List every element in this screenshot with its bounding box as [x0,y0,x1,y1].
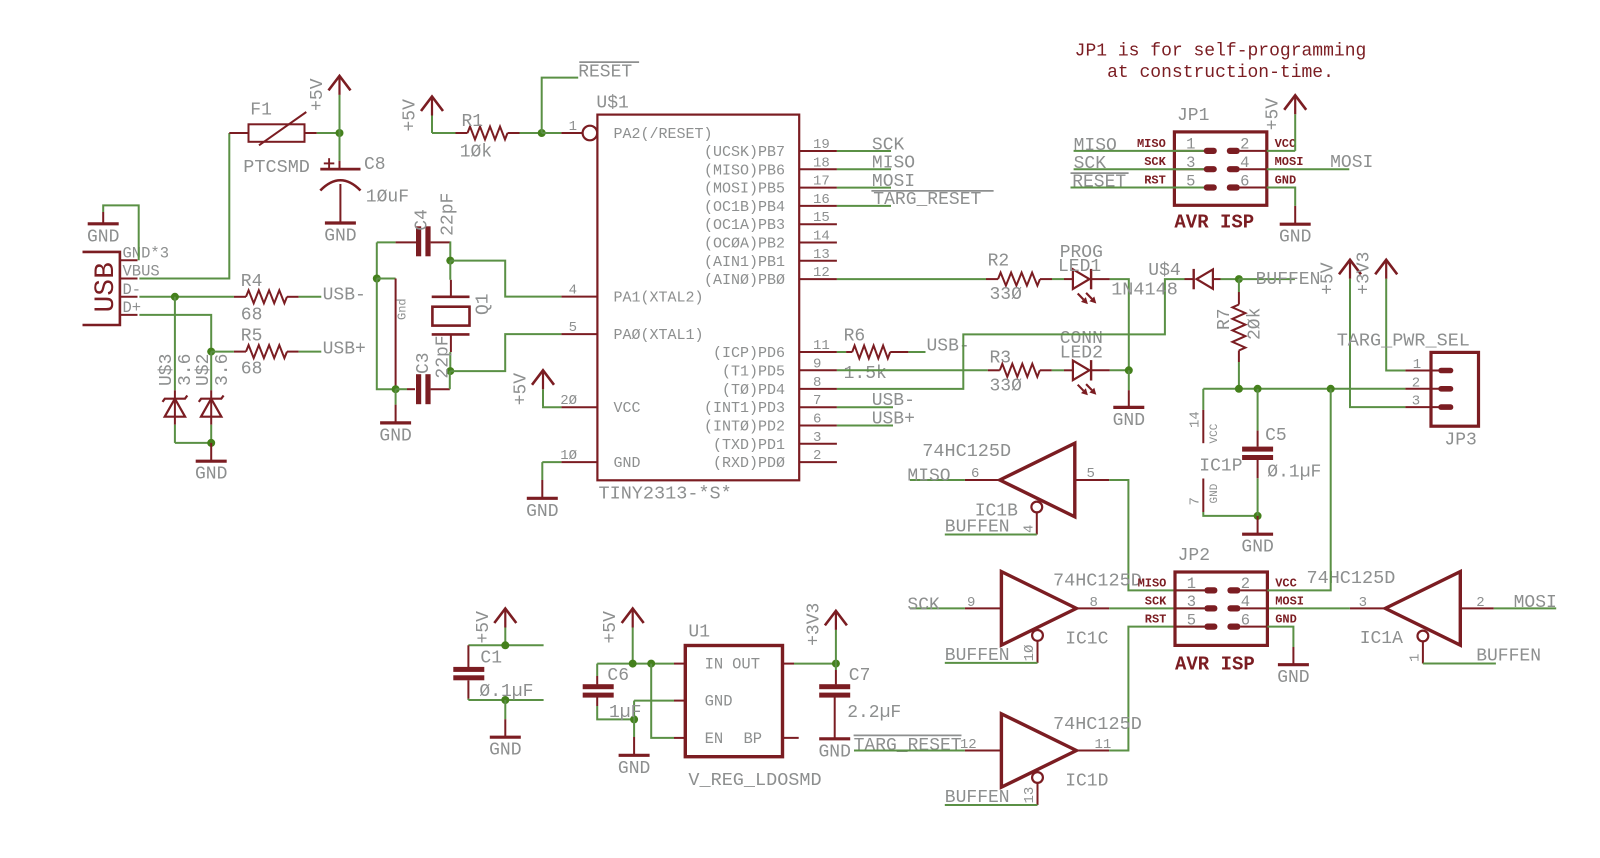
svg-text:BP: BP [744,730,763,748]
svg-text:22pF: 22pF [439,193,459,236]
svg-text:USB-: USB- [872,391,915,411]
svg-text:TARG_RESET: TARG_RESET [873,190,981,210]
svg-text:at construction-time.: at construction-time. [1107,63,1334,83]
svg-text:(OC1A)PB3: (OC1A)PB3 [704,217,785,234]
svg-text:OUT: OUT [732,656,760,674]
svg-text:PA2(/RESET): PA2(/RESET) [614,126,713,143]
svg-text:R7: R7 [1215,308,1235,330]
svg-text:8: 8 [1090,595,1098,611]
svg-text:MOSI: MOSI [1275,155,1304,169]
svg-text:TARG_PWR_SEL: TARG_PWR_SEL [1337,331,1470,352]
svg-text:1µF: 1µF [609,703,641,723]
svg-text:PA1(XTAL2): PA1(XTAL2) [614,290,704,307]
svg-text:GND: GND [1275,613,1297,627]
svg-text:RESET: RESET [578,63,632,83]
svg-text:(AIN1)PB1: (AIN1)PB1 [704,254,785,271]
svg-text:SCK: SCK [907,595,940,615]
svg-text:4: 4 [1021,525,1037,533]
svg-text:MISO: MISO [1137,137,1166,151]
svg-text:5: 5 [569,320,577,336]
svg-text:V_REG_LDOSMD: V_REG_LDOSMD [688,770,821,791]
svg-text:SCK: SCK [1074,154,1107,174]
svg-text:GND: GND [379,426,411,446]
svg-text:MISO: MISO [1138,576,1167,590]
svg-text:Gnd: Gnd [396,298,410,320]
svg-text:(OC1B)PB4: (OC1B)PB4 [704,199,785,216]
svg-text:C5: C5 [1265,426,1287,446]
svg-text:+5V: +5V [474,611,494,644]
svg-text:4: 4 [1240,154,1249,172]
svg-text:2: 2 [813,448,821,464]
svg-text:BUFFEN: BUFFEN [1256,270,1321,290]
svg-text:9: 9 [813,356,821,372]
svg-text:(MISO)PB6: (MISO)PB6 [704,162,785,179]
svg-text:IC1B: IC1B [975,502,1018,522]
svg-text:MISO: MISO [1074,136,1117,156]
svg-text:1: 1 [1413,357,1421,373]
svg-text:(INT1)PD3: (INT1)PD3 [704,400,785,417]
svg-text:IC1P: IC1P [1199,457,1242,477]
svg-text:USB+: USB+ [323,340,366,360]
svg-text:14: 14 [813,229,830,245]
svg-text:R3: R3 [990,349,1012,369]
svg-text:Ø.1µF: Ø.1µF [1267,463,1321,483]
svg-text:33Ø: 33Ø [990,377,1023,397]
svg-text:68: 68 [241,305,263,325]
svg-text:17: 17 [813,174,830,190]
svg-text:SCK: SCK [1145,594,1167,608]
svg-text:18: 18 [813,155,830,171]
svg-text:R4: R4 [241,272,263,292]
svg-text:GND: GND [1209,483,1221,503]
svg-text:8: 8 [813,375,821,391]
svg-text:1N4148: 1N4148 [1111,280,1178,301]
svg-text:4: 4 [569,283,577,299]
svg-text:AVR ISP: AVR ISP [1175,654,1255,676]
svg-text:GND: GND [1277,668,1309,688]
svg-text:74HC125D: 74HC125D [1053,571,1142,592]
svg-text:+5V: +5V [512,373,532,406]
svg-text:2: 2 [1412,375,1420,391]
svg-text:1Ø: 1Ø [1022,645,1038,662]
svg-text:+5V: +5V [1319,262,1339,295]
svg-text:6: 6 [971,466,979,482]
svg-text:JP1: JP1 [1177,106,1209,126]
svg-text:+5V: +5V [401,99,421,132]
svg-text:1: 1 [1187,575,1196,593]
svg-text:13: 13 [1022,787,1038,804]
svg-text:2: 2 [1240,136,1249,154]
svg-text:74HC125D: 74HC125D [922,441,1011,462]
svg-text:VCC: VCC [1209,423,1221,443]
svg-text:(TXD)PD1: (TXD)PD1 [713,437,785,454]
svg-text:LED1: LED1 [1058,257,1101,277]
svg-text:3.6: 3.6 [176,354,196,386]
svg-text:GND: GND [1241,538,1273,558]
svg-text:U$4: U$4 [1148,261,1180,281]
svg-text:C7: C7 [849,666,871,686]
svg-text:33Ø: 33Ø [990,285,1023,305]
svg-text:USB: USB [91,262,122,312]
svg-text:2.2µF: 2.2µF [847,703,901,723]
svg-text:1ØuF: 1ØuF [366,188,409,208]
svg-text:R5: R5 [241,327,263,347]
svg-text:JP3: JP3 [1444,431,1476,451]
svg-text:1: 1 [1407,654,1423,662]
svg-text:11: 11 [813,338,830,354]
svg-text:EN: EN [705,730,724,748]
svg-text:+3V3: +3V3 [804,603,824,646]
svg-text:(UCSK)PB7: (UCSK)PB7 [704,144,785,161]
svg-text:7: 7 [813,393,821,409]
svg-text:R6: R6 [844,327,866,347]
svg-text:(OCØA)PB2: (OCØA)PB2 [704,236,785,253]
svg-text:PTCSMD: PTCSMD [243,157,310,178]
svg-text:GND: GND [1279,228,1311,248]
svg-text:GND: GND [324,227,356,247]
svg-text:GND: GND [1275,174,1297,188]
svg-text:12: 12 [813,265,830,281]
svg-text:22pF: 22pF [434,335,454,378]
svg-text:USB+: USB+ [872,410,915,430]
svg-text:2: 2 [1476,595,1484,611]
svg-text:Q1: Q1 [474,293,494,315]
svg-text:RESET: RESET [1072,173,1126,193]
svg-text:C1: C1 [480,648,502,668]
svg-text:MOSI: MOSI [1514,593,1557,613]
svg-text:68: 68 [241,359,263,379]
svg-text:6: 6 [1241,611,1250,629]
svg-text:R2: R2 [988,252,1010,272]
svg-text:(AINØ)PBØ: (AINØ)PBØ [704,272,785,289]
svg-text:VCC: VCC [614,400,641,417]
svg-text:MOSI: MOSI [1330,153,1373,173]
svg-text:11: 11 [1095,737,1112,753]
svg-text:13: 13 [813,247,830,263]
svg-text:GND: GND [618,759,650,779]
svg-text:GND: GND [489,741,521,761]
svg-text:U$1: U$1 [596,94,628,114]
svg-text:C4: C4 [412,209,432,231]
svg-text:IC1D: IC1D [1065,772,1108,792]
svg-text:U$3: U$3 [157,354,177,386]
svg-text:GND: GND [195,465,227,485]
svg-text:5: 5 [1187,611,1196,629]
svg-text:BUFFEN: BUFFEN [945,646,1010,666]
svg-text:AVR ISP: AVR ISP [1174,211,1254,233]
svg-text:IC1C: IC1C [1065,630,1108,650]
svg-text:(RXD)PDØ: (RXD)PDØ [713,455,785,472]
svg-text:U1: U1 [688,623,710,643]
svg-text:F1: F1 [250,101,272,121]
svg-text:1: 1 [569,119,577,135]
svg-text:RST: RST [1145,613,1167,627]
svg-text:3: 3 [1412,394,1420,410]
svg-text:1.5k: 1.5k [844,364,887,384]
svg-text:BUFFEN: BUFFEN [1476,647,1541,667]
svg-text:(TØ)PD4: (TØ)PD4 [722,382,785,399]
svg-text:MOSI: MOSI [1275,594,1304,608]
svg-text:74HC125D: 74HC125D [1307,568,1396,589]
svg-text:C6: C6 [607,666,629,686]
svg-text:6: 6 [1240,172,1249,190]
svg-text:GND: GND [1113,411,1145,431]
svg-text:GND: GND [526,502,558,522]
svg-text:74HC125D: 74HC125D [1053,714,1142,735]
svg-text:BUFFEN: BUFFEN [945,788,1010,808]
svg-text:MISO: MISO [907,467,950,487]
svg-text:SCK: SCK [1144,155,1166,169]
svg-text:(ICP)PD6: (ICP)PD6 [713,345,785,362]
svg-text:TARG_RESET: TARG_RESET [854,736,962,756]
svg-text:19: 19 [813,137,830,153]
svg-text:PAØ(XTAL1): PAØ(XTAL1) [614,327,704,344]
svg-text:3: 3 [1359,595,1367,611]
svg-text:2Ø: 2Ø [560,393,577,409]
svg-text:MISO: MISO [872,154,915,174]
svg-text:JP1 is for self-programming: JP1 is for self-programming [1075,42,1367,62]
svg-text:USB-: USB- [323,286,366,306]
svg-text:+5V: +5V [1264,98,1284,131]
svg-text:VCC: VCC [1275,576,1297,590]
svg-text:3.6: 3.6 [213,354,233,386]
svg-text:+5V: +5V [308,78,328,111]
svg-text:SCK: SCK [872,135,905,155]
svg-text:+5V: +5V [601,611,621,644]
svg-text:LED2: LED2 [1060,344,1103,364]
svg-text:C8: C8 [364,155,386,175]
svg-text:3: 3 [813,430,821,446]
svg-text:15: 15 [813,210,830,226]
svg-text:VCC: VCC [1275,137,1297,151]
svg-text:GND: GND [705,693,733,711]
svg-text:(T1)PD5: (T1)PD5 [722,363,785,380]
svg-text:Ø.1µF: Ø.1µF [479,682,533,702]
svg-text:C3: C3 [414,352,434,374]
svg-text:1Øk: 1Øk [460,143,492,163]
svg-text:9: 9 [967,595,975,611]
svg-text:16: 16 [813,192,830,208]
svg-text:(MOSI)PB5: (MOSI)PB5 [704,181,785,198]
svg-text:TINY2313-*S*: TINY2313-*S* [599,484,732,505]
svg-text:GND: GND [614,455,641,472]
svg-text:U$2: U$2 [194,354,214,386]
svg-text:6: 6 [813,412,821,428]
svg-text:2Øk: 2Øk [1246,308,1266,340]
svg-text:IN: IN [705,656,724,674]
svg-text:RST: RST [1144,174,1166,188]
svg-text:1Ø: 1Ø [560,448,577,464]
svg-text:IC1A: IC1A [1360,629,1403,649]
svg-text:MOSI: MOSI [872,172,915,192]
svg-text:R1: R1 [462,112,484,132]
svg-text:(INTØ)PD2: (INTØ)PD2 [704,419,785,436]
svg-text:+3V3: +3V3 [1355,252,1375,295]
svg-text:14: 14 [1188,411,1204,428]
svg-text:GND: GND [818,742,850,762]
svg-text:GND: GND [87,227,119,247]
svg-text:2: 2 [1241,575,1250,593]
svg-text:JP2: JP2 [1178,546,1210,566]
svg-text:3: 3 [1187,593,1196,611]
svg-text:7: 7 [1188,497,1204,505]
svg-text:4: 4 [1241,593,1250,611]
svg-text:5: 5 [1087,466,1095,482]
